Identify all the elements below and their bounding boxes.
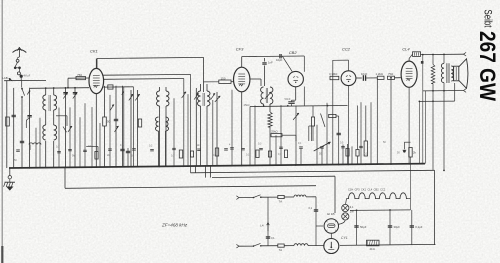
wire v338 down	[338, 116, 340, 165]
DC rail y210	[350, 209, 411, 212]
pilot lamp 2	[342, 213, 349, 220]
cap near bus v404	[404, 141, 410, 143]
padder trimmer 2	[135, 94, 139, 100]
tube CF3	[234, 67, 250, 92]
svg-text:CB2: CB2	[289, 50, 298, 55]
antenna coil secondary	[54, 95, 57, 110]
wire v419.4 down	[418, 101, 420, 163]
mains top wire	[239, 197, 254, 199]
wire v425.6 down	[425, 91, 427, 164]
svg-text:CK1: CK1	[90, 49, 98, 54]
wire screen drop	[183, 79, 185, 167]
resistor boxes near bus mid	[190, 151, 193, 157]
wire anode drop to lineA	[190, 74, 192, 172]
resistor near bus 1	[179, 150, 182, 158]
wire CB2 right vertical bottom	[303, 87, 305, 106]
detector twin vertical	[308, 126, 310, 141]
svg-text:El 1B: El 1B	[327, 212, 334, 216]
wire to output grid	[366, 77, 377, 79]
resistor box v96.5	[95, 152, 98, 160]
wire v68 drop	[67, 78, 69, 87]
resistor v346 near bus	[346, 149, 349, 157]
resistor near bus v410	[409, 148, 412, 158]
trimmer v116	[115, 126, 119, 132]
tuning gang cap 1	[63, 92, 67, 98]
svg-text:10nF: 10nF	[361, 72, 368, 76]
resistor boxes left of pot	[256, 150, 259, 158]
g3 stub drops	[123, 87, 125, 167]
svg-text:10n: 10n	[88, 145, 93, 148]
rectifier CY1	[324, 239, 339, 254]
antenna hook contact	[17, 57, 19, 60]
svg-text:Seibt: Seibt	[481, 10, 493, 28]
wire lineB drop to lamps	[334, 176, 336, 213]
volume pot arrow	[293, 113, 299, 120]
svg-text:CC2: CC2	[342, 47, 351, 52]
capacitor on v22	[20, 140, 24, 142]
bus stub group	[35, 128, 37, 168]
wire to CL4 grid	[395, 77, 401, 79]
coupling cap to CB2	[279, 54, 281, 58]
branch wire v86-98	[86, 146, 98, 148]
svg-text:C1H CF3 CK1 CL4 CB2 CC2: C1H CF3 CK1 CL4 CB2 CC2	[348, 187, 386, 191]
wire v116	[115, 86, 117, 167]
wire v377 down	[376, 78, 378, 164]
svg-text:CF3: CF3	[236, 47, 244, 52]
svg-text:1nF: 1nF	[268, 61, 273, 65]
wire v391 down	[390, 78, 392, 164]
switch hook left	[122, 92, 124, 96]
speaker	[454, 66, 459, 81]
wire lineB taps	[205, 166, 207, 178]
wire lamp2 to El1B	[338, 220, 345, 224]
svg-text:0,1μF: 0,1μF	[415, 225, 422, 229]
mid rail y106	[250, 106, 348, 107]
svg-text:7A: 7A	[279, 248, 283, 252]
junction dots feed line	[422, 54, 424, 56]
antenna switch dots	[14, 67, 17, 70]
mains switch top	[253, 197, 255, 199]
IF2 trimmer	[265, 92, 271, 99]
barretter El 1B	[324, 219, 338, 233]
capacitor near bus v122	[126, 150, 130, 152]
svg-text:7A: 7A	[279, 199, 283, 203]
antenna arrow onto rail	[9, 78, 13, 81]
CL4 top cap component	[413, 52, 421, 57]
tube CB2	[288, 71, 303, 86]
junction dots left rail	[45, 87, 47, 89]
speaker bottom line	[423, 90, 464, 92]
wire v13.7	[13, 88, 15, 168]
wire IF2 down	[263, 104, 265, 106]
trimmer v112	[110, 105, 114, 111]
wire lineA bus to supply	[191, 170, 435, 173]
cap box 0.1uF	[364, 141, 367, 156]
capacitor on v13.7	[12, 114, 16, 116]
svg-text:750: 750	[77, 73, 82, 77]
pilot lamp 1	[342, 204, 349, 211]
trimmer at v217	[215, 96, 220, 102]
wire CB2 right vertical top	[303, 56, 305, 72]
wire CF3 anode top	[241, 57, 243, 68]
capacitor C26	[337, 132, 341, 134]
antenna feed wire	[20, 76, 22, 81]
wire v390 filter	[389, 210, 391, 245]
wire lineC left riser	[64, 167, 66, 188]
scan edge bottom smudge	[1, 246, 3, 263]
box on g3 stub	[108, 85, 113, 89]
wire supply right riser	[434, 170, 436, 245]
tube CK1	[89, 68, 104, 93]
svg-text:ZF=468 kHz: ZF=468 kHz	[161, 223, 188, 228]
svg-text:4M µF: 4M µF	[23, 74, 31, 77]
speaker feed line	[421, 53, 464, 55]
wire El1B to CY1	[330, 233, 332, 238]
wire CC2 cathode down	[348, 85, 350, 164]
speaker secondary return	[419, 100, 454, 102]
mains bottom wire	[239, 245, 254, 247]
zigzag resistor below IF2	[268, 112, 272, 127]
wire CF3 top to CB2	[242, 55, 305, 58]
svg-text:0,1: 0,1	[271, 236, 275, 240]
wire CF3 cathode down	[241, 92, 243, 166]
cap C31	[314, 209, 318, 211]
cap 0.1uF	[410, 225, 414, 227]
wire pot chain	[282, 134, 296, 136]
switch diagonal	[321, 114, 326, 128]
svg-text:50nF: 50nF	[285, 97, 291, 101]
choke top	[294, 195, 306, 197]
capacitor 10nF box	[138, 119, 141, 127]
wire v356 filter	[356, 210, 358, 245]
wire CC2 top link	[333, 59, 349, 61]
wire lamp chain	[346, 199, 347, 205]
cap square on v422.8	[421, 61, 424, 64]
padder trimmer 1	[129, 94, 133, 100]
wire primary drop to lineA	[443, 83, 445, 171]
wire v217	[216, 92, 218, 166]
wire lineA tap	[195, 166, 197, 173]
capacitor on v116	[114, 118, 118, 120]
tuning gang cap 2	[73, 92, 77, 98]
svg-text:75Ω: 75Ω	[388, 72, 393, 76]
resistor v357	[356, 150, 359, 157]
antenna coil primary	[43, 95, 46, 110]
resistor right of CK1	[103, 117, 107, 126]
svg-text:10pF: 10pF	[276, 58, 283, 62]
svg-text:2k: 2k	[413, 150, 417, 154]
svg-text:0,1: 0,1	[309, 206, 313, 210]
wire v411.8 filter	[411, 210, 413, 245]
ground symbol	[9, 168, 11, 176]
capacitor on v122.5	[120, 148, 124, 150]
output transformer secondary	[451, 66, 453, 81]
antenna symbol	[13, 50, 27, 53]
wave change coil horizontal	[29, 143, 41, 145]
coupling cap 10nF	[362, 75, 364, 81]
svg-text:30μF: 30μF	[394, 225, 401, 229]
svg-text:50n: 50n	[196, 144, 201, 147]
resistor v217	[215, 148, 218, 156]
wire top line right drop	[203, 57, 205, 92]
grid resistor 1.2k	[377, 76, 384, 79]
wire v30	[29, 88, 31, 168]
wire CC2 anode right	[356, 77, 362, 79]
trimmer mid	[182, 92, 186, 98]
IF1 coil pair	[198, 91, 201, 106]
svg-text:25kΩ: 25kΩ	[244, 104, 250, 107]
tube CC2	[341, 71, 356, 86]
wire v422.8 down	[422, 55, 424, 164]
chain to riser	[408, 198, 410, 200]
supply bottom rail	[340, 244, 436, 245]
svg-text:LAB: LAB	[2, 76, 8, 80]
resistor 3.3M	[330, 76, 339, 79]
resistor h 50k	[329, 114, 336, 117]
osc coil pair	[157, 91, 160, 106]
volume pot main arrow	[314, 142, 331, 151]
feedback resistor zigzag	[432, 55, 434, 65]
wire CB2 cathode down	[295, 87, 297, 100]
wire CK1 cathode down	[95, 94, 97, 168]
wire CF3 right to IF2	[250, 78, 261, 80]
wire v365 up	[365, 106, 367, 142]
wire CL4 cathode down	[408, 87, 410, 164]
resistor h 25k	[271, 134, 282, 137]
antenna blob contact	[20, 75, 23, 78]
cap 50uF	[354, 225, 358, 227]
wire lineB	[212, 176, 335, 177]
wire top line from CK1	[97, 57, 204, 58]
junctions y106	[263, 105, 265, 107]
svg-text:CL4: CL4	[402, 46, 410, 51]
wire grid CF3 resistor 150	[204, 81, 219, 83]
fuse top 7A	[278, 195, 284, 198]
diode cap 50nF	[288, 101, 294, 103]
wire v65 tuning cap	[65, 88, 67, 168]
antenna contact circle	[17, 72, 20, 75]
svg-text:3,3MΩ: 3,3MΩ	[329, 72, 337, 76]
L4 arrow	[267, 223, 270, 232]
tube CL4	[401, 61, 417, 87]
output transformer core	[446, 63, 448, 83]
wire CK1 anode right	[104, 73, 191, 76]
mains fork bottom	[236, 244, 239, 248]
switch and trimmer mid-left	[63, 127, 67, 133]
mains switch bottom	[253, 245, 255, 247]
wire v250 from CF3	[249, 107, 251, 166]
heater riser through bus	[410, 157, 412, 210]
svg-text:41Ω: 41Ω	[370, 247, 375, 251]
osc coil primary	[43, 125, 46, 140]
wire top line left drop to CK1 cap	[96, 59, 98, 69]
svg-text:25kΩ: 25kΩ	[271, 130, 278, 134]
wire left top link	[4, 79, 46, 81]
resistor 750	[76, 77, 86, 80]
svg-text:9,1: 9,1	[350, 205, 354, 209]
svg-text:267 GW: 267 GW	[475, 31, 500, 101]
wire CK1 top cap	[95, 59, 97, 69]
wire lineC lower chassis run	[65, 186, 316, 189]
coil core lines	[48, 95, 50, 111]
wire left rail	[6, 81, 8, 168]
chassis bus	[9, 164, 425, 168]
IF1 core	[202, 93, 204, 106]
svg-text:1,2kΩ: 1,2kΩ	[376, 72, 383, 76]
wire CK1 screen right	[104, 78, 184, 81]
IF2 coil pair	[261, 87, 264, 104]
bus junction dots	[29, 167, 31, 169]
cap C30	[266, 236, 270, 238]
wire v122.5	[122, 86, 124, 167]
vertical mains link v268	[267, 197, 269, 246]
wire v22 with band switch	[21, 81, 23, 88]
osc tracking coil tall	[155, 117, 158, 131]
cap sprinkle group	[16, 149, 20, 151]
speaker terminal fork top	[464, 52, 467, 56]
branch wire left	[56, 115, 67, 117]
capacitor on v30	[27, 115, 31, 117]
wire bend v26	[26, 118, 29, 128]
cap 30uF	[388, 225, 392, 227]
fuse bottom 7A	[278, 244, 284, 247]
switch head v30	[27, 91, 29, 95]
wire v332 grid feed	[332, 60, 334, 165]
svg-text:150: 150	[221, 76, 226, 80]
wire CB2 top entry diagonal	[283, 56, 293, 71]
svg-text:CY1: CY1	[341, 236, 348, 240]
resistor v313	[311, 117, 314, 126]
wire v433 down to lineA	[432, 101, 434, 170]
wire CK1 g3 stub	[104, 86, 134, 88]
svg-text:50μF: 50μF	[360, 225, 367, 229]
capacitor 1nF top	[262, 62, 266, 64]
osc coil secondary	[54, 125, 57, 140]
scan left edge line	[2, 0, 3, 263]
heater chain bumps	[347, 193, 409, 199]
wire El1B top to v316	[316, 225, 323, 227]
resistor left column	[6, 117, 10, 126]
field coil resistor	[367, 240, 380, 246]
trimmer pair right	[194, 93, 198, 99]
choke bottom	[294, 244, 308, 246]
grid resistor 75	[388, 76, 395, 79]
wire v75	[74, 88, 76, 168]
output transformer primary	[443, 54, 445, 63]
vertical v316	[315, 197, 317, 246]
left mid rail	[30, 87, 89, 90]
wire CK1 grid left	[68, 77, 89, 79]
mains fork top	[236, 196, 239, 200]
svg-text:L4: L4	[260, 224, 264, 228]
